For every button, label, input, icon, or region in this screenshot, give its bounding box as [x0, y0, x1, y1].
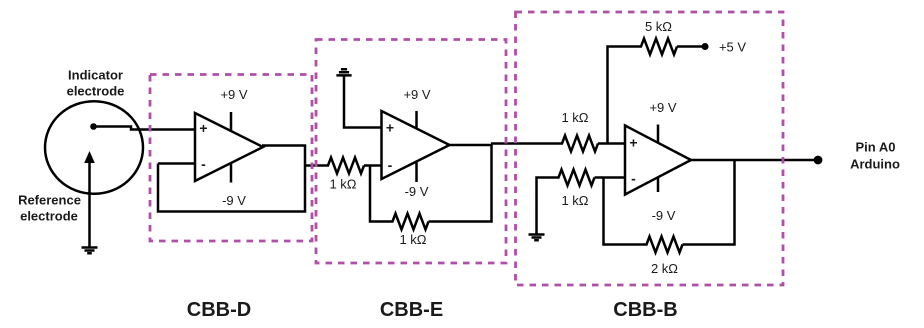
svg-text:+: +	[386, 120, 394, 136]
svg-text:CBB-B: CBB-B	[613, 299, 677, 321]
svg-text:-: -	[388, 157, 393, 173]
svg-text:electrode: electrode	[67, 84, 125, 99]
svg-text:-: -	[631, 171, 636, 187]
svg-text:5 kΩ: 5 kΩ	[645, 19, 672, 34]
svg-text:2 kΩ: 2 kΩ	[651, 261, 678, 276]
svg-text:+9 V: +9 V	[403, 87, 430, 102]
svg-text:+9 V: +9 V	[220, 87, 247, 102]
svg-text:1 kΩ: 1 kΩ	[561, 110, 588, 125]
svg-text:-9 V: -9 V	[652, 208, 676, 223]
svg-text:-9 V: -9 V	[405, 184, 429, 199]
svg-text:+5 V: +5 V	[719, 40, 746, 55]
svg-text:-9 V: -9 V	[222, 193, 246, 208]
svg-text:1 kΩ: 1 kΩ	[561, 193, 588, 208]
svg-text:1 kΩ: 1 kΩ	[329, 177, 356, 192]
svg-text:Pin A0: Pin A0	[856, 140, 896, 155]
svg-text:1 kΩ: 1 kΩ	[399, 232, 426, 247]
svg-text:electrode: electrode	[20, 209, 78, 224]
svg-text:+: +	[629, 135, 637, 151]
svg-text:Arduino: Arduino	[850, 157, 900, 172]
svg-text:+9 V: +9 V	[649, 100, 676, 115]
svg-text:Indicator: Indicator	[68, 68, 123, 83]
svg-text:CBB-D: CBB-D	[187, 299, 251, 321]
svg-text:+: +	[199, 120, 207, 136]
svg-text:CBB-E: CBB-E	[380, 299, 443, 321]
svg-text:-: -	[201, 156, 206, 172]
svg-text:Reference: Reference	[18, 193, 81, 208]
